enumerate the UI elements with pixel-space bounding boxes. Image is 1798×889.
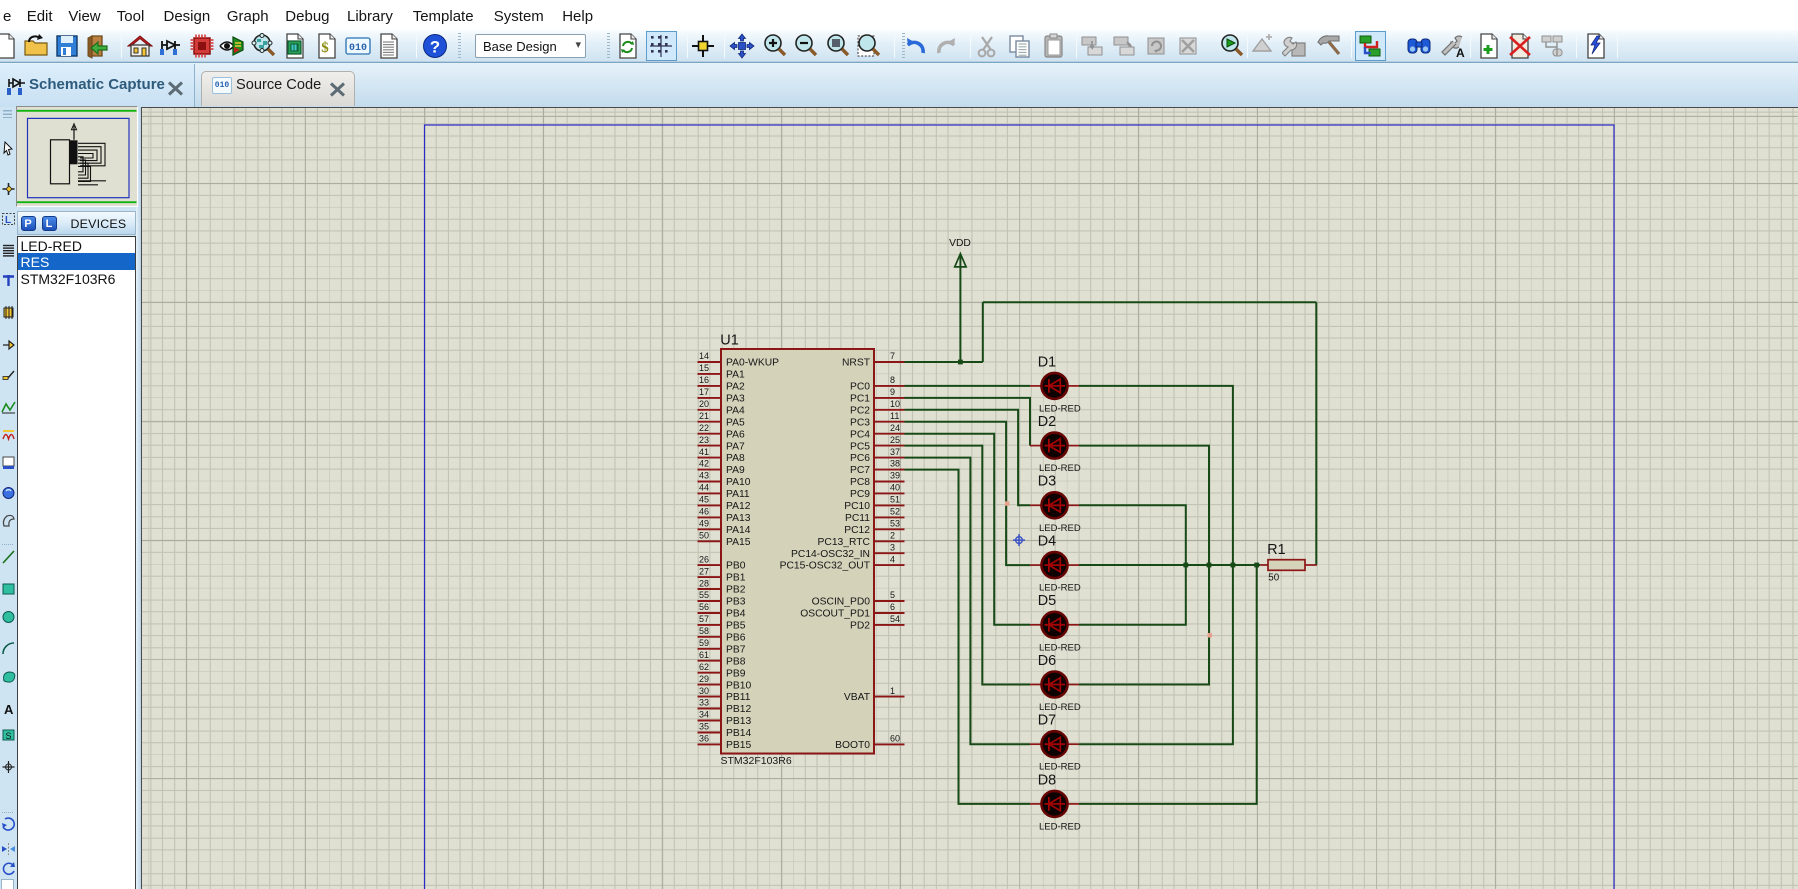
toolbar icon save (54, 33, 80, 59)
wire R1 left to D4 cathode (1079, 564, 1260, 566)
svg-text:3: 3 (890, 542, 895, 552)
svg-text:9: 9 (890, 387, 895, 397)
left tool rotate (1, 817, 16, 833)
pin 28 PB2 (697, 588, 721, 590)
toolbar icon new file (0, 33, 19, 59)
LED D3 (1030, 504, 1043, 506)
svg-text:58: 58 (698, 626, 708, 636)
cursor marker (1013, 539, 1025, 541)
toolbar icon block rotate (1143, 33, 1169, 59)
svg-text:PA6: PA6 (726, 429, 745, 440)
svg-text:A: A (4, 702, 14, 717)
svg-text:PA13: PA13 (726, 513, 751, 524)
pin 22 PA6 (697, 432, 721, 434)
wire PC1-D2 (904, 397, 1030, 445)
tab icon schematic (6, 73, 28, 99)
junction VDD/NRST (958, 359, 963, 364)
svg-text:44: 44 (698, 482, 708, 492)
svg-text:PB3: PB3 (726, 596, 746, 607)
left tool generator (1, 455, 16, 471)
svg-text:50: 50 (698, 530, 708, 540)
toolbar icon zoom in (762, 33, 788, 59)
pin 61 PB8 (697, 659, 721, 661)
svg-text:D5: D5 (1037, 593, 1055, 609)
svg-text:33: 33 (698, 697, 708, 707)
wire PC6-D7 (904, 457, 1030, 744)
LED D7 (1030, 743, 1043, 745)
left tool junction (1, 181, 16, 197)
svg-text:30: 30 (698, 685, 708, 695)
wire PC2-D3 (904, 409, 1030, 505)
svg-text:PA7: PA7 (726, 441, 745, 452)
svg-text:BOOT0: BOOT0 (835, 740, 870, 751)
pin 30 PB11 (697, 695, 721, 697)
svg-text:D2: D2 (1037, 414, 1055, 430)
LED D4 (1030, 564, 1043, 566)
left tool graph (1, 399, 16, 415)
svg-text:D6: D6 (1037, 652, 1055, 668)
svg-text:29: 29 (698, 673, 708, 683)
wire D6 cathode return (1079, 565, 1209, 685)
svg-text:PA3: PA3 (726, 393, 745, 404)
svg-text:PA12: PA12 (726, 501, 751, 512)
svg-text:PA1: PA1 (726, 369, 745, 380)
toolbar icon zoom area (856, 33, 882, 59)
wire D7 cathode return (1079, 565, 1233, 744)
svg-text:PA10: PA10 (726, 477, 751, 488)
pin 16 PA2 (697, 384, 721, 386)
LED D1 (1030, 384, 1043, 386)
svg-text:PA11: PA11 (726, 489, 750, 500)
pin 23 PA7 (697, 444, 721, 446)
svg-text:PC2: PC2 (849, 405, 869, 416)
svg-text:PC11: PC11 (845, 513, 870, 524)
pin 62 PB9 (697, 671, 721, 673)
left tool voltage probe (1, 485, 16, 501)
pin 50 PA15 (697, 540, 721, 542)
toolbar icon hierarchy (1539, 33, 1565, 59)
toolbar icon zoom all (825, 33, 851, 59)
toolbar icon origin (690, 33, 716, 59)
svg-text:34: 34 (698, 709, 708, 719)
toolbar icon add sheet (1476, 33, 1502, 59)
wire PC4-D5 (904, 433, 1030, 624)
svg-text:PA14: PA14 (726, 524, 751, 535)
wire up from NRST node (981, 302, 983, 362)
svg-text:LED-RED: LED-RED (1039, 463, 1081, 474)
pin 58 PB6 (697, 635, 721, 637)
pin 34 PB13 (697, 719, 721, 721)
svg-text:50: 50 (1268, 572, 1279, 583)
pin 55 PB3 (697, 600, 721, 602)
svg-text:55: 55 (698, 590, 708, 600)
svg-text:PA8: PA8 (726, 453, 745, 464)
pin 53 PC12 (874, 528, 904, 530)
devices header (17, 211, 136, 236)
svg-text:24: 24 (890, 422, 900, 432)
left tool bus (1, 273, 16, 289)
left tool 2d circle (1, 609, 16, 625)
svg-text:28: 28 (698, 578, 708, 588)
svg-text:49: 49 (698, 518, 708, 528)
tab icon 010 (212, 77, 232, 94)
left tool mirror (1, 841, 16, 857)
wire D8 cathode return (1079, 565, 1257, 804)
svg-text:38: 38 (890, 458, 900, 468)
left tool tape (1, 427, 16, 443)
toolbar icon bill of materials (314, 33, 340, 59)
svg-text:21: 21 (698, 410, 708, 420)
svg-text:10: 10 (890, 399, 900, 409)
toolbar icon redo (934, 33, 960, 59)
pin 56 PB4 (697, 612, 721, 614)
left tool 2d arc (1, 641, 16, 657)
svg-text:U1: U1 (720, 332, 739, 348)
svg-text:PA4: PA4 (726, 405, 745, 416)
svg-text:PB12: PB12 (726, 704, 751, 715)
LED D2 (1030, 444, 1043, 446)
pin 49 PA14 (697, 528, 721, 530)
toolbar icon exit (84, 33, 110, 59)
svg-text:5: 5 (890, 590, 895, 600)
pin 35 PB14 (697, 731, 721, 733)
wire NRST to VDD node (904, 361, 982, 363)
svg-text:41: 41 (698, 446, 708, 456)
preview vdd arrow (73, 125, 75, 139)
pin 6 OSCOUT_PD1 (874, 612, 904, 614)
svg-text:PC12: PC12 (844, 524, 870, 535)
svg-text:2: 2 (890, 530, 895, 540)
pin 15 PA1 (697, 372, 721, 374)
svg-text:LED-RED: LED-RED (1039, 522, 1081, 533)
toolbar icon search (1406, 33, 1432, 59)
svg-text:NRST: NRST (841, 357, 870, 368)
pin 41 PA8 (697, 456, 721, 458)
svg-text:52: 52 (890, 506, 900, 516)
pin 10 PC2 (874, 408, 904, 410)
toolbar icon design explorer (219, 33, 245, 59)
toolbar icon grid toggle (648, 33, 674, 59)
svg-text:37: 37 (890, 446, 900, 456)
left tool 2d line (1, 549, 16, 565)
svg-text:25: 25 (890, 434, 900, 444)
left tool 2d box2 (1, 581, 16, 597)
svg-text:16: 16 (698, 375, 708, 385)
toolbar icon refresh sheet (615, 33, 641, 59)
pin 37 PC6 (874, 456, 904, 458)
power VDD (959, 255, 961, 362)
svg-text:56: 56 (698, 602, 708, 612)
svg-text:PD2: PD2 (849, 620, 869, 631)
svg-text:42: 42 (698, 458, 708, 468)
pin 27 PB1 (697, 576, 721, 578)
svg-text:LED-RED: LED-RED (1039, 582, 1081, 593)
svg-text:53: 53 (890, 518, 900, 528)
svg-text:PB5: PB5 (726, 620, 746, 631)
svg-text:OSCOUT_PD1: OSCOUT_PD1 (800, 608, 870, 619)
svg-text:7: 7 (890, 351, 895, 361)
svg-text:4: 4 (890, 554, 895, 564)
svg-text:35: 35 (698, 721, 708, 731)
left tool 2d text (1, 701, 16, 717)
svg-text:LED-RED: LED-RED (1039, 642, 1081, 653)
wire PC0-D1 (904, 384, 1030, 386)
preview chip (51, 139, 70, 183)
svg-text:PA0-WKUP: PA0-WKUP (726, 357, 779, 368)
pin 26 PB0 (697, 564, 721, 566)
svg-text:PC1: PC1 (849, 393, 869, 404)
toolbar icon zoom out (793, 33, 819, 59)
pin 1 VBAT (874, 695, 904, 697)
pin 43 PA10 (697, 480, 721, 482)
toolbar icon wrench chip (1282, 33, 1308, 59)
base design combo (475, 34, 586, 58)
toolbar icon netlist (251, 33, 277, 59)
pin 17 PA3 (697, 396, 721, 398)
pin 29 PB10 (697, 683, 721, 685)
toolbar icon copy (1007, 33, 1033, 59)
svg-text:D8: D8 (1037, 772, 1055, 788)
left tool device pin (1, 367, 16, 383)
pin 39 PC8 (874, 480, 904, 482)
wire D1 cathode return (1079, 385, 1233, 564)
svg-text:14: 14 (698, 351, 708, 361)
svg-text:LED-RED: LED-RED (1039, 821, 1081, 832)
left tool 2d marker (1, 759, 16, 775)
stray mark 2 (1207, 633, 1212, 638)
svg-text:PC0: PC0 (849, 381, 869, 392)
svg-text:$: $ (321, 40, 329, 56)
svg-text:PB0: PB0 (726, 560, 746, 571)
svg-text:PC13_RTC: PC13_RTC (817, 536, 870, 547)
svg-text:VBAT: VBAT (843, 692, 870, 703)
pin 44 PA11 (697, 492, 721, 494)
toolbar icon hammer (1317, 33, 1343, 59)
svg-text:A: A (1456, 46, 1465, 59)
left tool redraw (1, 861, 16, 877)
pin 4 PC15-OSC32_OUT (874, 564, 904, 566)
left tool terminal (1, 337, 16, 353)
left tool label (1, 211, 16, 227)
svg-text:57: 57 (698, 614, 708, 624)
svg-text:46: 46 (698, 506, 708, 516)
pin 24 PC4 (874, 432, 904, 434)
svg-text:D3: D3 (1037, 473, 1055, 489)
pin 5 OSCIN_PD0 (874, 600, 904, 602)
toolbar icon help (422, 33, 448, 59)
pin 40 PC9 (874, 492, 904, 494)
svg-text:PB2: PB2 (726, 584, 746, 595)
pin 21 PA5 (697, 420, 721, 422)
pin 45 PA12 (697, 504, 721, 506)
pin 3 PC14-OSC32_IN (874, 552, 904, 554)
svg-text:PB15: PB15 (726, 740, 751, 751)
toolbar icon pan (729, 33, 755, 59)
svg-text:61: 61 (698, 650, 708, 660)
svg-text:PA2: PA2 (726, 381, 745, 392)
pin 14 PA0-WKUP (697, 361, 721, 363)
svg-text:40: 40 (890, 482, 900, 492)
svg-text:R1: R1 (1267, 541, 1285, 557)
svg-text:PA9: PA9 (726, 465, 745, 476)
svg-text:L: L (5, 215, 11, 226)
svg-text:15: 15 (698, 363, 708, 373)
pin 8 PC0 (874, 384, 904, 386)
junction D2/D6 node (1206, 562, 1211, 567)
junction D3/D5 node (1183, 562, 1188, 567)
toolbar icon property tool (1439, 33, 1465, 59)
wire top horizontal to R1 right (982, 301, 1316, 303)
pin 46 PA13 (697, 516, 721, 518)
pin 60 BOOT0 (874, 743, 904, 745)
svg-text:PC8: PC8 (849, 477, 869, 488)
toolbar icon block delete (1175, 33, 1201, 59)
svg-text:43: 43 (698, 470, 708, 480)
pin 59 PB7 (697, 647, 721, 649)
svg-text:23: 23 (698, 434, 708, 444)
left tool current probe (1, 513, 16, 529)
svg-text:010: 010 (349, 43, 367, 54)
svg-text:PB4: PB4 (726, 608, 746, 619)
toolbar icon remove sheet (1507, 33, 1533, 59)
left tool 2d symbol (1, 727, 16, 743)
left tool script (1, 243, 16, 259)
junction D1/D7 node (1230, 562, 1235, 567)
pin 52 PC11 (874, 516, 904, 518)
toolbar icon pcb doc (282, 33, 308, 59)
svg-text:PC14-OSC32_IN: PC14-OSC32_IN (791, 548, 870, 559)
wire D3 cathode return (1079, 505, 1186, 565)
toolbar icon cut (976, 33, 1002, 59)
svg-text:PB14: PB14 (726, 728, 751, 739)
svg-text:39: 39 (890, 470, 900, 480)
svg-text:LED-RED: LED-RED (1039, 761, 1081, 772)
svg-text:D7: D7 (1037, 712, 1055, 728)
svg-text:PC3: PC3 (849, 417, 869, 428)
svg-text:D4: D4 (1037, 533, 1055, 549)
toolbar icon undo (902, 33, 928, 59)
toolbar icon open (23, 33, 49, 59)
svg-text:PB8: PB8 (726, 656, 746, 667)
wire D5 cathode return (1079, 565, 1186, 625)
svg-text:45: 45 (698, 494, 708, 504)
pin 7 NRST (874, 361, 904, 363)
svg-text:17: 17 (698, 387, 708, 397)
toolbar icon erc (1583, 33, 1609, 59)
pin 54 PD2 (874, 623, 904, 625)
pin 42 PA9 (697, 468, 721, 470)
svg-text:PA5: PA5 (726, 417, 745, 428)
svg-text:PC9: PC9 (849, 489, 869, 500)
left tool 2d path (1, 669, 16, 685)
left tool pointer (1, 141, 16, 157)
MCU U1 STM32F103R6 (721, 349, 874, 754)
wire PC3-D4 (904, 421, 1030, 564)
svg-text:PA15: PA15 (726, 536, 751, 547)
toolbar icon doc notes (376, 33, 402, 59)
stray mark 1 (1004, 501, 1009, 506)
svg-text:36: 36 (698, 733, 708, 743)
svg-text:20: 20 (698, 399, 708, 409)
toolbar icon home (127, 33, 153, 59)
LED D5 (1030, 623, 1043, 625)
preview wire loops (78, 143, 105, 166)
resistor R1 (1260, 564, 1268, 566)
svg-text:LED-RED: LED-RED (1039, 403, 1081, 414)
svg-text:?: ? (430, 38, 440, 57)
pin 20 PA4 (697, 408, 721, 410)
svg-text:22: 22 (698, 422, 708, 432)
preview pane (16, 106, 138, 208)
pin 51 PC10 (874, 504, 904, 506)
wire D2 cathode return (1079, 445, 1209, 564)
toolbar icon bom (189, 33, 215, 59)
svg-text:LED-RED: LED-RED (1039, 702, 1081, 713)
svg-text:S: S (6, 731, 12, 741)
svg-text:PB10: PB10 (726, 680, 751, 691)
svg-text:OSCIN_PD0: OSCIN_PD0 (811, 596, 870, 607)
svg-text:PC7: PC7 (849, 465, 869, 476)
wire down to R1 right stub (1315, 302, 1317, 565)
pressed grid button (646, 31, 677, 61)
svg-text:PC4: PC4 (849, 429, 869, 440)
svg-text:6: 6 (890, 602, 895, 612)
pin 2 PC13_RTC (874, 540, 904, 542)
LED D6 (1030, 683, 1043, 685)
svg-text:PC5: PC5 (849, 441, 869, 452)
svg-text:54: 54 (890, 614, 900, 624)
svg-text:1: 1 (890, 685, 895, 695)
wire PC5-D6 (904, 445, 1030, 684)
svg-text:PB11: PB11 (726, 692, 751, 703)
svg-text:59: 59 (698, 638, 708, 648)
svg-text:VDD: VDD (949, 237, 971, 248)
toolbar icon autoroute wires (1357, 33, 1383, 59)
pin 57 PB5 (697, 623, 721, 625)
toolbar icon block move (1111, 33, 1137, 59)
pressed autoroute button (1355, 31, 1386, 61)
pin 11 PC3 (874, 420, 904, 422)
svg-text:60: 60 (890, 733, 900, 743)
svg-text:51: 51 (890, 494, 900, 504)
svg-text:STM32F103R6: STM32F103R6 (720, 755, 791, 767)
svg-text:PC10: PC10 (844, 501, 870, 512)
svg-text:26: 26 (698, 554, 708, 564)
svg-text:8: 8 (890, 375, 895, 385)
toolbar icon zoom child (1249, 33, 1275, 59)
svg-text:27: 27 (698, 566, 708, 576)
pin 38 PC7 (874, 468, 904, 470)
svg-text:PC6: PC6 (849, 453, 869, 464)
toolbar icon source code 010 (345, 33, 371, 59)
pin 33 PB12 (697, 707, 721, 709)
toolbar icon schematic (158, 33, 184, 59)
left tool subcircuit (1, 305, 16, 321)
svg-text:PB7: PB7 (726, 644, 746, 655)
pin 36 PB15 (697, 743, 721, 745)
svg-text:62: 62 (698, 661, 708, 671)
svg-text:PC15-OSC32_OUT: PC15-OSC32_OUT (779, 560, 870, 571)
svg-text:PB6: PB6 (726, 632, 746, 643)
toolbar icon paste (1041, 33, 1067, 59)
svg-text:11: 11 (890, 410, 899, 420)
svg-text:PB9: PB9 (726, 668, 746, 679)
sheet border (424, 125, 1614, 889)
pin 25 PC5 (874, 444, 904, 446)
LED D8 (1030, 802, 1043, 804)
toolbar icon block copy (1079, 33, 1105, 59)
wire PC7-D8 (904, 469, 1030, 803)
